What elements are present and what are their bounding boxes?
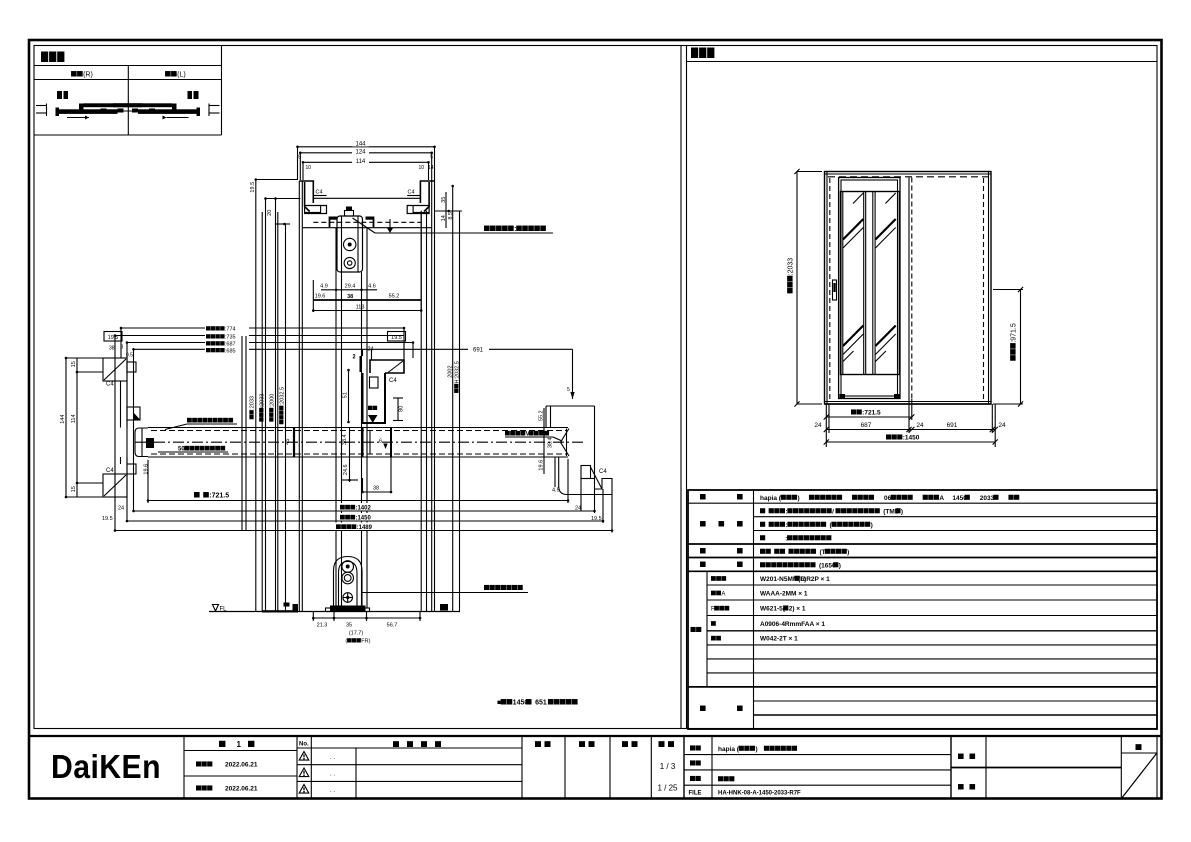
mini plan diagram right-pull <box>36 91 143 120</box>
dim 1489 <box>114 523 614 532</box>
dim 1450 <box>126 513 605 522</box>
svg-text:1 / 3: 1 / 3 <box>660 762 676 771</box>
left jamb lower casing <box>103 457 136 497</box>
svg-text:): ) <box>871 522 873 529</box>
svg-text::1402: :1402 <box>355 506 371 512</box>
right jamb profile <box>546 406 612 495</box>
section arrow marker <box>387 219 393 233</box>
right block divider <box>951 767 1121 769</box>
pocket line pair <box>421 211 426 612</box>
no col <box>297 742 522 782</box>
scale values <box>657 762 678 793</box>
svg-text:35: 35 <box>441 197 447 203</box>
svg-text:06: 06 <box>884 495 892 502</box>
door handle <box>833 280 837 300</box>
extension verticals mid <box>115 328 413 531</box>
svg-text:hapia (: hapia ( <box>760 495 782 502</box>
head jamb right profile <box>407 181 435 214</box>
svg-text:24: 24 <box>118 506 124 512</box>
svg-text:38.4: 38.4 <box>342 434 348 445</box>
band stile crossing <box>342 428 391 458</box>
hanger roller lower <box>344 257 355 268</box>
svg-text:56.7: 56.7 <box>387 623 398 629</box>
svg-text::2033: :2033 <box>250 396 256 410</box>
svg-text::: : <box>785 522 787 529</box>
band pocket end thick <box>285 428 294 458</box>
left jamb upper casing <box>103 358 136 428</box>
svg-text:2022.06.21: 2022.06.21 <box>225 786 258 793</box>
stile dim 51 <box>343 369 350 424</box>
dim height 971.5 <box>993 287 1023 407</box>
small dims left <box>109 345 133 359</box>
floor blob right <box>440 604 448 611</box>
svg-text::: : <box>785 508 787 515</box>
label 件名 <box>958 754 975 759</box>
svg-text:(R): (R) <box>83 72 93 79</box>
svg-text:): ) <box>797 495 799 502</box>
svg-text:651: 651 <box>535 700 547 707</box>
chamfer label C4 jamb upper <box>106 382 114 388</box>
height label 内法高2000 <box>269 394 275 422</box>
value 図名 <box>718 776 734 781</box>
rev header 第1版 <box>219 740 254 749</box>
svg-text:10: 10 <box>306 165 312 171</box>
spec value 仕上げ1 <box>760 508 903 515</box>
height label 扉高2033 <box>249 396 255 419</box>
svg-text:24: 24 <box>998 422 1006 429</box>
wall line left pair <box>299 181 302 612</box>
stile profile <box>363 360 405 423</box>
svg-text:(L): (L) <box>177 72 186 79</box>
width dim line 774 <box>120 324 406 333</box>
spec value 仕上げ3 <box>760 535 831 542</box>
rev row1 <box>196 761 258 768</box>
svg-text:19.6: 19.6 <box>144 464 150 475</box>
svg-text:19.5: 19.5 <box>108 335 119 341</box>
note text <box>497 699 578 706</box>
spec value 把手 <box>760 549 849 556</box>
svg-text:1 / 25: 1 / 25 <box>657 784 678 793</box>
right jamb dims <box>539 408 602 522</box>
title block verticals <box>184 737 1121 799</box>
label 組員 <box>958 784 975 789</box>
svg-text:C4: C4 <box>316 190 323 196</box>
svg-text:687: 687 <box>861 422 872 429</box>
title block top band <box>29 735 1162 737</box>
svg-text:19.5: 19.5 <box>102 516 113 522</box>
svg-text:55.2: 55.2 <box>539 410 545 421</box>
spec sub labels <box>711 576 729 640</box>
svg-text:24: 24 <box>814 422 822 429</box>
spec value 付属 <box>760 562 841 569</box>
svg-text:): ) <box>847 549 849 556</box>
label FILE <box>689 791 702 797</box>
leader フラットレール <box>362 585 528 593</box>
height dim line 3 <box>274 197 277 611</box>
svg-text:144: 144 <box>355 142 366 148</box>
spec table label divider <box>753 490 755 729</box>
svg-text:113: 113 <box>356 304 365 310</box>
svg-text::971.5: :971.5 <box>1011 323 1018 343</box>
door leaf band top edge <box>148 427 568 429</box>
svg-text:. .: . . <box>330 788 335 794</box>
svg-text::2033: :2033 <box>788 258 795 276</box>
extra cluster verticals <box>242 336 246 530</box>
svg-text:10: 10 <box>419 165 425 171</box>
stile ext lines <box>363 343 405 361</box>
dim 144 <box>296 140 436 149</box>
stile label エア <box>368 406 377 410</box>
svg-text:6: 6 <box>379 439 382 445</box>
left jamb vertical dims <box>60 357 103 499</box>
label 品番2 <box>690 760 701 765</box>
FL level mark <box>213 605 228 613</box>
height dim extra pair <box>262 212 278 612</box>
door leaf face right pair <box>362 228 368 608</box>
warning triangle 2 <box>299 768 309 777</box>
floor guide rollers <box>342 561 354 603</box>
left jamb small dims <box>102 506 124 523</box>
svg-text:38: 38 <box>373 486 379 492</box>
rail track dashed <box>302 222 431 227</box>
svg-text:24: 24 <box>368 347 374 353</box>
height dim line 4 <box>283 223 286 612</box>
rev history header <box>393 741 441 747</box>
svg-text:A: A <box>939 495 944 502</box>
svg-text::: : <box>785 535 787 542</box>
chamfer label C4 stile <box>389 378 397 384</box>
svg-text:4.6: 4.6 <box>368 284 376 290</box>
mini plan diagram left-pull <box>113 91 220 120</box>
check header 確認 <box>579 741 595 747</box>
svg-text:691: 691 <box>473 347 484 353</box>
section table header 左引(L) <box>165 71 186 78</box>
bottom dims <box>312 612 421 645</box>
svg-text:114: 114 <box>356 159 366 165</box>
floor line <box>209 610 460 612</box>
approve header 承認 <box>535 741 551 747</box>
leader label 建具 <box>165 418 237 430</box>
rev history divider <box>355 748 357 799</box>
svg-text:HA-HNK-08-A-1450-2033-R7F: HA-HNK-08-A-1450-2033-R7F <box>718 791 801 797</box>
svg-text:24.6: 24.6 <box>343 464 349 475</box>
svg-text:■: ■ <box>497 700 501 707</box>
spec label 付属 <box>700 562 743 567</box>
spec label 要式 <box>700 494 743 499</box>
svg-text::721.5: :721.5 <box>209 493 229 500</box>
label 図名 <box>690 776 701 781</box>
rail profile <box>330 217 374 228</box>
rail underside line <box>313 197 421 199</box>
svg-text:(17.7): (17.7) <box>349 631 364 637</box>
svg-text:C4: C4 <box>106 382 114 388</box>
svg-text::1489: :1489 <box>357 525 373 531</box>
scale header 縮尺 <box>659 741 675 747</box>
inner frame <box>34 46 1157 729</box>
svg-text:14: 14 <box>441 215 447 221</box>
svg-text:55.2: 55.2 <box>389 294 400 300</box>
svg-text:(T: (T <box>819 549 825 556</box>
svg-text:A0906-4RmmFAA × 1: A0906-4RmmFAA × 1 <box>760 621 825 628</box>
spec label 備考 <box>700 706 743 711</box>
wall line right pair <box>432 180 435 612</box>
svg-text:20: 20 <box>267 210 273 216</box>
svg-text:144: 144 <box>60 415 66 424</box>
door leaf band inner dashed <box>151 431 566 455</box>
rev row2 <box>196 785 258 792</box>
chamfer label C4 jamb lower <box>106 468 114 474</box>
pocket edge <box>909 178 912 400</box>
svg-text:19.6: 19.6 <box>315 294 326 300</box>
page cell <box>1121 737 1157 799</box>
svg-text:15: 15 <box>71 486 77 492</box>
warning triangle 1 <box>299 752 309 761</box>
svg-text:38: 38 <box>347 294 353 300</box>
width dim line 687 <box>126 339 415 348</box>
svg-text:21.3: 21.3 <box>317 623 328 629</box>
svg-text:FILE: FILE <box>689 791 702 797</box>
arrow 691 end <box>567 349 575 399</box>
svg-text:. .: . . <box>330 772 335 778</box>
svg-text:): ) <box>755 746 757 753</box>
band lower dims <box>342 457 392 493</box>
floor blobs left <box>284 603 299 612</box>
right rotated labels <box>447 361 460 393</box>
create header 作成 <box>622 741 638 747</box>
spec value 品番5 <box>760 636 798 643</box>
spec value 仕上げ2 <box>760 522 873 529</box>
svg-text:L)R2P × 1: L)R2P × 1 <box>800 576 830 583</box>
dim height 2033 <box>787 169 822 407</box>
svg-text:38.4: 38.4 <box>548 437 554 448</box>
chamfer label C4 right jamb <box>599 469 607 475</box>
stile top tick <box>353 354 363 372</box>
spec value 要式 <box>760 495 1019 502</box>
svg-text:45: 45 <box>285 439 291 445</box>
svg-text:38: 38 <box>109 346 115 352</box>
spec label 品番 <box>691 627 702 632</box>
svg-text:4.9: 4.9 <box>320 284 328 290</box>
spec table outer <box>688 490 1157 729</box>
svg-text:4.5: 4.5 <box>552 488 560 494</box>
door leaf band centerline <box>135 441 585 443</box>
svg-text:A: A <box>721 591 725 597</box>
hanger body <box>337 216 363 272</box>
boxed dim 19.5 left <box>104 332 122 342</box>
leader text 吊車レール：別梱包部品 <box>484 226 546 233</box>
DAIKEN logo <box>51 748 161 785</box>
floor guide base <box>326 606 370 612</box>
svg-text::685: :685 <box>225 348 236 354</box>
svg-text:2: 2 <box>353 354 356 360</box>
height dim ticks <box>250 180 300 225</box>
left jamb stop block <box>127 407 140 420</box>
hanger bolt <box>345 207 354 217</box>
svg-text::721.5: :721.5 <box>862 410 881 417</box>
svg-text:2033: 2033 <box>980 495 995 502</box>
leader label 50戸当りキャップ <box>158 446 228 453</box>
height dim line 1 <box>255 178 258 611</box>
section table grid <box>34 46 222 136</box>
svg-text:691: 691 <box>947 422 958 429</box>
svg-text:35: 35 <box>346 623 352 629</box>
width dim line 685/691 <box>132 345 572 355</box>
door leaf left cap <box>135 428 154 457</box>
spec table row lines <box>688 503 1157 715</box>
spec value 品番2 <box>760 590 808 597</box>
spec value 品番3 <box>760 605 806 612</box>
rev history dots <box>330 755 335 794</box>
dim extension lines top <box>298 147 435 180</box>
top detail lower dims row1 <box>320 284 377 292</box>
floor guide inner <box>339 562 358 609</box>
width dim line 735 <box>114 332 404 341</box>
svg-text:15: 15 <box>71 361 77 367</box>
elevation right track dashed <box>983 178 985 399</box>
front view title 正面図 <box>687 48 1158 62</box>
label 19.6 left <box>144 464 150 475</box>
svg-text:114: 114 <box>71 414 77 423</box>
spec label 仕上げ <box>700 521 743 526</box>
value 名称 <box>718 746 797 753</box>
boxed dim 19.5 right <box>388 332 406 342</box>
dim 1450 front <box>824 434 998 444</box>
svg-text::1450: :1450 <box>903 435 920 442</box>
section table header 右引(R) <box>71 71 93 78</box>
floor guide outer <box>334 557 363 609</box>
dim 721.5 <box>147 459 570 503</box>
svg-text:19.5: 19.5 <box>391 335 402 341</box>
dim 1402 <box>132 503 596 512</box>
elevation dim ext verticals <box>826 399 995 447</box>
svg-text:51: 51 <box>343 392 349 398</box>
chamfer label C4 right top <box>408 190 415 196</box>
hanger roller upper <box>344 238 356 250</box>
svg-text:29.4: 29.4 <box>345 284 356 290</box>
svg-text:W042-2T × 1: W042-2T × 1 <box>760 636 798 643</box>
elevation top rail dashed <box>828 176 988 178</box>
rev col lines <box>184 751 297 777</box>
svg-text:hapia (: hapia ( <box>718 746 740 753</box>
svg-text:124: 124 <box>355 150 366 156</box>
elevation bottom lines <box>825 402 992 405</box>
height label 枠内高2033 <box>259 394 265 422</box>
svg-text::2033: :2033 <box>259 394 265 408</box>
leaf bottom rollers <box>840 394 900 399</box>
svg-text::: : <box>514 226 516 233</box>
svg-text:DaiKEn: DaiKEn <box>51 748 161 785</box>
right dim verticals <box>453 186 460 612</box>
height dim line 2 <box>264 197 267 611</box>
leader hanger rail <box>353 218 554 233</box>
dim 721.5 front <box>824 409 915 419</box>
height label レール高2032.5 <box>279 387 285 424</box>
svg-text:C4: C4 <box>106 468 114 474</box>
svg-text:24: 24 <box>916 422 924 429</box>
dim row 24/687/24/691/24 <box>814 422 1006 432</box>
spec value 品番1 <box>760 576 830 583</box>
label 名称 <box>690 745 701 750</box>
elevation left track dashed <box>829 178 831 399</box>
head jamb left profile <box>299 181 326 214</box>
chamfer label C4 left top <box>316 190 323 196</box>
svg-text:1: 1 <box>237 740 242 749</box>
dim 124 <box>298 148 433 161</box>
V-cap leader <box>505 431 562 441</box>
spec label 把手 <box>700 548 743 553</box>
svg-text:. .: . . <box>330 755 335 761</box>
right jamb ext lines <box>581 478 612 533</box>
svg-text::1450: :1450 <box>355 516 371 522</box>
svg-text:): ) <box>901 508 903 515</box>
svg-text:C4: C4 <box>408 190 415 196</box>
page diagonal <box>1122 754 1157 799</box>
svg-text:2002: 2002 <box>447 365 453 377</box>
elevation frame outer <box>825 172 992 405</box>
svg-text:5: 5 <box>567 387 570 393</box>
svg-text:/: / <box>832 508 834 515</box>
door leaf band bottom edge <box>148 456 568 458</box>
top detail lower dims row2 <box>313 294 421 300</box>
stile dim 80 <box>393 398 404 421</box>
panel divider <box>681 46 687 729</box>
section table title 断面図 <box>41 52 64 63</box>
name col lines <box>684 755 951 786</box>
top detail lower dims row3 <box>312 212 423 312</box>
svg-text:C4: C4 <box>599 469 607 475</box>
svg-text:): ) <box>839 562 841 569</box>
svg-text:2) × 1: 2) × 1 <box>789 606 806 613</box>
svg-text:No.: No. <box>299 742 309 748</box>
svg-text:C4: C4 <box>389 378 397 384</box>
warning triangle 3 <box>299 785 309 794</box>
svg-text:H:2032.5: H:2032.5 <box>454 361 460 383</box>
value FILE <box>718 791 801 797</box>
svg-text:19.5: 19.5 <box>250 182 256 193</box>
door leaf outline <box>839 178 900 399</box>
svg-text:FR): FR) <box>361 639 370 645</box>
svg-text::2000: :2000 <box>269 394 275 408</box>
svg-text:FL: FL <box>220 607 228 613</box>
glass reflection diagonals <box>843 193 896 362</box>
svg-text:19.6: 19.6 <box>539 460 545 471</box>
small dims right <box>353 347 374 361</box>
glass unit <box>841 192 900 375</box>
svg-text:80: 80 <box>398 406 404 412</box>
svg-text:WAAA-2MM × 1: WAAA-2MM × 1 <box>760 590 808 597</box>
spec value 品番4 <box>760 621 825 628</box>
door leaf face left pair <box>336 228 342 608</box>
svg-text::2032.5: :2032.5 <box>279 387 285 405</box>
svg-text:2022.06.21: 2022.06.21 <box>225 762 258 769</box>
top right dims <box>435 185 463 228</box>
dim 114 <box>302 157 434 171</box>
